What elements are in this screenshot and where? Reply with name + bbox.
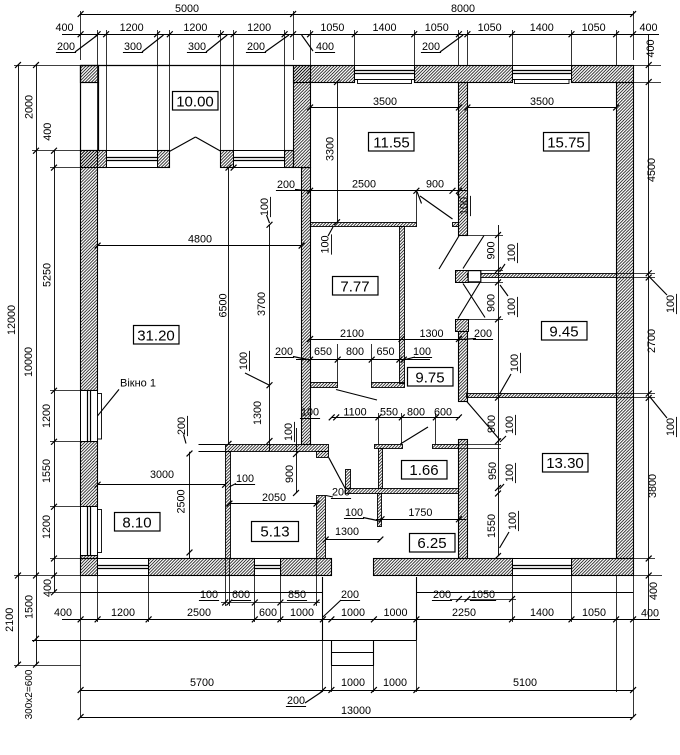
svg-text:1550: 1550 [486, 514, 498, 538]
svg-text:1300: 1300 [419, 328, 443, 340]
svg-text:1000: 1000 [383, 607, 407, 619]
svg-text:1000: 1000 [290, 607, 314, 619]
svg-text:2100: 2100 [4, 608, 16, 632]
svg-text:12000: 12000 [6, 305, 18, 335]
svg-text:200: 200 [275, 346, 293, 358]
svg-text:1400: 1400 [530, 22, 554, 34]
svg-text:2500: 2500 [175, 489, 187, 513]
svg-text:1050: 1050 [425, 22, 449, 34]
svg-text:1750: 1750 [408, 507, 432, 519]
svg-text:950: 950 [487, 462, 499, 480]
svg-text:1500: 1500 [23, 595, 35, 619]
svg-text:200: 200 [341, 589, 359, 601]
svg-text:100: 100 [238, 352, 250, 370]
svg-text:200: 200 [332, 486, 350, 498]
svg-text:100: 100 [506, 244, 518, 262]
svg-text:850: 850 [288, 589, 306, 601]
svg-text:200: 200 [57, 41, 75, 53]
svg-text:1100: 1100 [343, 406, 366, 418]
svg-text:1300: 1300 [335, 526, 359, 538]
svg-text:5250: 5250 [41, 263, 53, 287]
svg-text:100: 100 [665, 418, 677, 436]
svg-text:3000: 3000 [150, 469, 174, 481]
svg-text:100: 100 [458, 197, 470, 215]
svg-text:900: 900 [485, 294, 497, 312]
svg-text:1050: 1050 [582, 22, 606, 34]
svg-text:100: 100 [236, 473, 254, 485]
svg-text:100: 100 [200, 589, 218, 601]
svg-text:200: 200 [422, 41, 440, 53]
svg-text:900: 900 [284, 465, 296, 483]
svg-text:200: 200 [247, 41, 265, 53]
svg-text:100: 100 [301, 406, 319, 418]
svg-text:900: 900 [426, 178, 444, 190]
svg-text:3300: 3300 [324, 137, 336, 161]
svg-text:31.20: 31.20 [137, 327, 175, 344]
svg-text:2050: 2050 [262, 492, 286, 504]
svg-text:100: 100 [665, 295, 677, 313]
svg-text:6.25: 6.25 [417, 535, 446, 552]
svg-text:400: 400 [641, 607, 659, 619]
svg-text:3800: 3800 [647, 474, 659, 498]
svg-text:5000: 5000 [175, 3, 199, 15]
svg-text:4500: 4500 [646, 158, 658, 182]
svg-text:1200: 1200 [183, 22, 207, 34]
svg-text:900: 900 [485, 241, 497, 259]
svg-text:10000: 10000 [23, 347, 35, 377]
svg-text:200: 200 [176, 417, 188, 435]
svg-text:9.45: 9.45 [549, 323, 578, 340]
svg-text:15.75: 15.75 [547, 134, 585, 151]
svg-text:4800: 4800 [188, 233, 212, 245]
svg-text:400: 400 [645, 39, 657, 57]
svg-text:7.77: 7.77 [340, 278, 369, 295]
svg-text:1200: 1200 [247, 22, 271, 34]
svg-text:100: 100 [413, 346, 431, 358]
svg-text:200: 200 [474, 328, 492, 340]
svg-text:1200: 1200 [41, 515, 53, 539]
svg-text:300x2=600: 300x2=600 [24, 669, 35, 719]
svg-text:1050: 1050 [320, 22, 344, 34]
svg-text:5.13: 5.13 [260, 524, 289, 541]
svg-text:800: 800 [346, 346, 364, 358]
svg-text:400: 400 [648, 582, 660, 600]
svg-text:13.30: 13.30 [546, 455, 584, 472]
svg-text:1050: 1050 [471, 589, 495, 601]
svg-text:300: 300 [188, 41, 206, 53]
svg-text:2100: 2100 [340, 328, 364, 340]
svg-text:100: 100 [283, 423, 295, 441]
svg-text:8.10: 8.10 [122, 514, 151, 531]
svg-text:550: 550 [380, 406, 398, 418]
svg-text:1200: 1200 [120, 22, 144, 34]
svg-text:10.00: 10.00 [176, 93, 214, 110]
svg-text:5100: 5100 [513, 677, 537, 689]
svg-text:1200: 1200 [111, 607, 135, 619]
svg-text:650: 650 [376, 346, 394, 358]
svg-text:1.66: 1.66 [409, 462, 438, 479]
svg-text:2700: 2700 [646, 329, 658, 353]
svg-text:1200: 1200 [41, 404, 53, 428]
svg-text:400: 400 [42, 123, 54, 141]
svg-text:600: 600 [259, 607, 277, 619]
svg-text:400: 400 [42, 579, 54, 597]
svg-text:13000: 13000 [341, 705, 371, 717]
svg-text:1000: 1000 [341, 607, 365, 619]
svg-text:300: 300 [124, 41, 142, 53]
svg-text:400: 400 [55, 22, 73, 34]
svg-text:600: 600 [434, 406, 452, 418]
svg-text:100: 100 [509, 354, 521, 372]
svg-text:200: 200 [287, 695, 305, 707]
svg-text:3500: 3500 [373, 96, 397, 108]
svg-text:2500: 2500 [352, 178, 376, 190]
svg-text:200: 200 [433, 589, 451, 601]
svg-text:1000: 1000 [341, 677, 365, 689]
svg-text:100: 100 [319, 235, 331, 253]
svg-text:100: 100 [504, 416, 516, 434]
svg-text:1400: 1400 [372, 22, 396, 34]
svg-text:1050: 1050 [478, 22, 502, 34]
svg-text:650: 650 [314, 346, 332, 358]
svg-text:2500: 2500 [187, 607, 211, 619]
svg-text:1300: 1300 [252, 401, 264, 425]
svg-text:3500: 3500 [530, 96, 554, 108]
svg-text:3700: 3700 [256, 292, 268, 316]
svg-text:1400: 1400 [530, 607, 554, 619]
svg-text:1050: 1050 [582, 607, 606, 619]
svg-text:100: 100 [345, 507, 363, 519]
svg-text:400: 400 [639, 22, 657, 34]
svg-text:5700: 5700 [190, 677, 214, 689]
svg-text:900: 900 [486, 415, 498, 433]
svg-text:Вікно 1: Вікно 1 [120, 377, 156, 389]
svg-text:100: 100 [506, 298, 518, 316]
svg-text:2000: 2000 [23, 95, 35, 119]
svg-text:400: 400 [316, 41, 334, 53]
svg-text:600: 600 [232, 589, 250, 601]
svg-text:100: 100 [507, 512, 519, 530]
svg-text:400: 400 [54, 607, 72, 619]
svg-text:2250: 2250 [452, 607, 476, 619]
svg-text:200: 200 [277, 179, 295, 191]
svg-text:9.75: 9.75 [415, 369, 444, 386]
svg-text:11.55: 11.55 [373, 134, 409, 151]
svg-text:800: 800 [407, 406, 425, 418]
svg-text:1000: 1000 [383, 677, 407, 689]
svg-text:8000: 8000 [451, 3, 475, 15]
svg-text:100: 100 [504, 464, 516, 482]
svg-text:100: 100 [259, 198, 271, 216]
svg-text:6500: 6500 [217, 293, 229, 317]
svg-text:1550: 1550 [41, 459, 53, 483]
